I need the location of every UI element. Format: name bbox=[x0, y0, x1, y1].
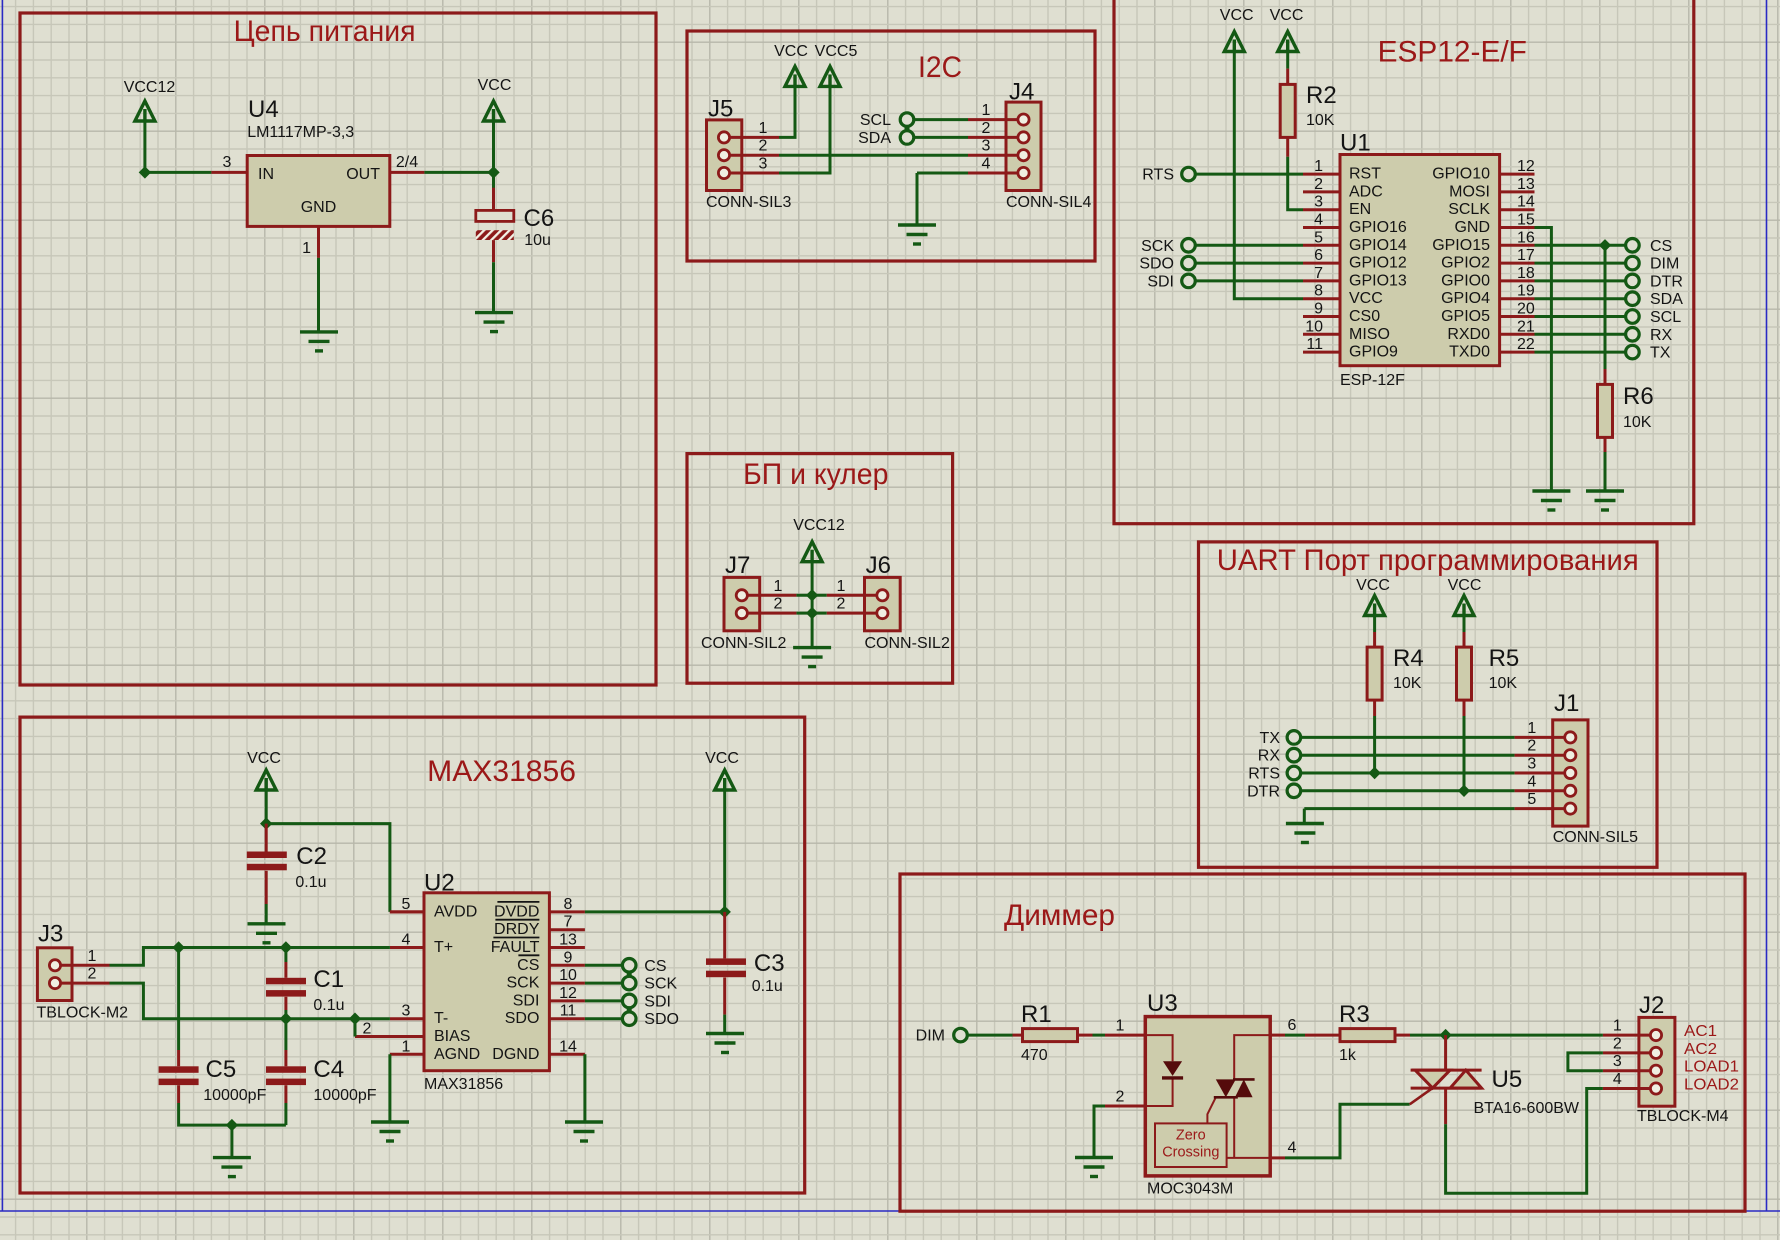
svg-text:ESP12-E/F: ESP12-E/F bbox=[1378, 36, 1527, 69]
svg-text:MOC3043M: MOC3043M bbox=[1147, 1181, 1233, 1198]
svg-text:J7: J7 bbox=[725, 552, 750, 579]
svg-text:SDI: SDI bbox=[1147, 273, 1174, 290]
svg-text:J5: J5 bbox=[708, 96, 733, 123]
svg-text:AVDD: AVDD bbox=[434, 903, 477, 920]
svg-text:3: 3 bbox=[1527, 756, 1536, 773]
svg-text:2: 2 bbox=[837, 596, 846, 613]
svg-text:1k: 1k bbox=[1339, 1047, 1357, 1064]
svg-text:C6: C6 bbox=[524, 205, 555, 232]
svg-text:SCL: SCL bbox=[860, 112, 891, 129]
svg-text:C5: C5 bbox=[206, 1056, 237, 1083]
svg-text:3: 3 bbox=[1314, 194, 1323, 211]
svg-text:AC1: AC1 bbox=[1684, 1023, 1717, 1040]
svg-text:DVDD: DVDD bbox=[494, 903, 539, 920]
svg-text:GND: GND bbox=[1454, 219, 1490, 236]
svg-text:CS: CS bbox=[1650, 238, 1672, 255]
svg-text:Crossing: Crossing bbox=[1162, 1145, 1219, 1161]
svg-text:VCC: VCC bbox=[774, 43, 808, 60]
svg-text:0.1u: 0.1u bbox=[752, 978, 783, 995]
svg-text:VCC12: VCC12 bbox=[124, 79, 176, 96]
svg-text:1: 1 bbox=[837, 578, 846, 595]
svg-text:19: 19 bbox=[1517, 283, 1535, 300]
svg-text:J3: J3 bbox=[38, 921, 63, 948]
svg-text:20: 20 bbox=[1517, 301, 1535, 318]
svg-text:IN: IN bbox=[258, 166, 274, 183]
svg-text:T-: T- bbox=[434, 1010, 448, 1027]
svg-text:Цепь питания: Цепь питания bbox=[234, 15, 416, 48]
svg-text:CONN-SIL2: CONN-SIL2 bbox=[701, 635, 786, 652]
svg-text:7: 7 bbox=[564, 914, 573, 931]
svg-text:9: 9 bbox=[564, 949, 573, 966]
svg-text:БП и кулер: БП и кулер bbox=[743, 458, 888, 491]
svg-text:13: 13 bbox=[559, 932, 577, 949]
svg-text:11: 11 bbox=[560, 1003, 577, 1020]
svg-text:CS: CS bbox=[517, 957, 539, 974]
svg-text:ADC: ADC bbox=[1349, 183, 1383, 200]
svg-text:VCC12: VCC12 bbox=[793, 517, 845, 534]
svg-text:2: 2 bbox=[88, 966, 97, 983]
svg-text:LOAD1: LOAD1 bbox=[1684, 1059, 1739, 1076]
svg-text:U5: U5 bbox=[1492, 1066, 1523, 1093]
svg-text:18: 18 bbox=[1517, 265, 1535, 282]
svg-text:DTR: DTR bbox=[1247, 783, 1280, 800]
svg-text:10K: 10K bbox=[1489, 675, 1518, 692]
svg-text:RST: RST bbox=[1349, 166, 1381, 183]
svg-text:RTS: RTS bbox=[1248, 766, 1280, 783]
svg-text:2: 2 bbox=[1116, 1089, 1125, 1106]
svg-text:SDO: SDO bbox=[644, 1011, 679, 1028]
svg-text:1: 1 bbox=[402, 1038, 411, 1055]
svg-text:GPIO15: GPIO15 bbox=[1432, 237, 1490, 254]
svg-text:10: 10 bbox=[1305, 318, 1323, 335]
svg-text:R2: R2 bbox=[1306, 82, 1337, 109]
svg-text:SDO: SDO bbox=[1139, 256, 1174, 273]
svg-text:LM1117MP-3,3: LM1117MP-3,3 bbox=[247, 124, 354, 141]
svg-text:J6: J6 bbox=[866, 552, 891, 579]
svg-text:GPIO4: GPIO4 bbox=[1441, 290, 1490, 307]
svg-text:4: 4 bbox=[1314, 212, 1323, 229]
svg-text:AGND: AGND bbox=[434, 1046, 480, 1063]
svg-text:SCLK: SCLK bbox=[1448, 201, 1490, 218]
svg-text:GPIO5: GPIO5 bbox=[1441, 308, 1490, 325]
svg-text:7: 7 bbox=[1314, 265, 1323, 282]
svg-text:TX: TX bbox=[1260, 730, 1281, 747]
svg-text:4: 4 bbox=[982, 156, 991, 173]
svg-text:DIM: DIM bbox=[916, 1028, 945, 1045]
svg-text:21: 21 bbox=[1517, 318, 1535, 335]
svg-text:R4: R4 bbox=[1393, 645, 1424, 672]
svg-text:6: 6 bbox=[1314, 247, 1323, 264]
svg-text:GPIO12: GPIO12 bbox=[1349, 255, 1407, 272]
svg-text:SDA: SDA bbox=[858, 130, 891, 147]
svg-text:1: 1 bbox=[1116, 1018, 1125, 1035]
svg-text:SCK: SCK bbox=[644, 976, 677, 993]
svg-text:UART Порт программирования: UART Порт программирования bbox=[1217, 544, 1639, 577]
svg-text:VCC: VCC bbox=[705, 750, 739, 767]
svg-text:RX: RX bbox=[1650, 327, 1673, 344]
svg-text:VCC: VCC bbox=[247, 750, 281, 767]
svg-text:0.1u: 0.1u bbox=[295, 874, 326, 891]
svg-text:10000pF: 10000pF bbox=[203, 1087, 266, 1104]
svg-text:GPIO9: GPIO9 bbox=[1349, 344, 1398, 361]
svg-text:CONN-SIL3: CONN-SIL3 bbox=[706, 194, 791, 211]
svg-text:2: 2 bbox=[982, 120, 991, 137]
svg-text:10K: 10K bbox=[1393, 675, 1422, 692]
svg-text:3: 3 bbox=[759, 156, 768, 173]
svg-text:DRDY: DRDY bbox=[494, 921, 540, 938]
svg-text:DGND: DGND bbox=[492, 1046, 539, 1063]
svg-text:SCK: SCK bbox=[506, 975, 539, 992]
svg-text:VCC: VCC bbox=[1349, 290, 1383, 307]
svg-text:4: 4 bbox=[402, 932, 411, 949]
svg-text:4: 4 bbox=[1613, 1071, 1622, 1088]
svg-text:C2: C2 bbox=[296, 843, 327, 870]
svg-text:J2: J2 bbox=[1639, 992, 1664, 1019]
svg-text:CS0: CS0 bbox=[1349, 308, 1380, 325]
svg-text:RX: RX bbox=[1258, 748, 1281, 765]
svg-text:1: 1 bbox=[759, 120, 768, 137]
svg-text:RXD0: RXD0 bbox=[1447, 326, 1490, 343]
svg-text:22: 22 bbox=[1517, 336, 1535, 353]
svg-text:U1: U1 bbox=[1340, 130, 1371, 157]
svg-text:5: 5 bbox=[1527, 791, 1536, 808]
svg-text:C3: C3 bbox=[754, 950, 785, 977]
svg-text:10: 10 bbox=[559, 967, 577, 984]
svg-text:GND: GND bbox=[301, 199, 337, 216]
svg-text:R5: R5 bbox=[1489, 645, 1520, 672]
svg-text:2: 2 bbox=[759, 138, 768, 155]
svg-text:GPIO14: GPIO14 bbox=[1349, 237, 1407, 254]
svg-text:10K: 10K bbox=[1623, 414, 1652, 431]
svg-text:SDI: SDI bbox=[644, 993, 671, 1010]
svg-text:AC2: AC2 bbox=[1684, 1041, 1717, 1058]
svg-text:U3: U3 bbox=[1147, 990, 1178, 1017]
svg-text:SDI: SDI bbox=[513, 992, 540, 1009]
svg-text:DTR: DTR bbox=[1650, 273, 1683, 290]
svg-text:GPIO16: GPIO16 bbox=[1349, 219, 1407, 236]
svg-text:MISO: MISO bbox=[1349, 326, 1390, 343]
svg-text:2: 2 bbox=[774, 596, 783, 613]
svg-text:1: 1 bbox=[88, 948, 97, 965]
svg-text:DIM: DIM bbox=[1650, 256, 1679, 273]
svg-text:VCC: VCC bbox=[1356, 577, 1390, 594]
svg-text:U2: U2 bbox=[424, 870, 455, 897]
svg-text:1: 1 bbox=[774, 578, 783, 595]
svg-text:Диммер: Диммер bbox=[1004, 899, 1115, 932]
svg-text:TBLOCK-M4: TBLOCK-M4 bbox=[1637, 1108, 1729, 1125]
svg-text:1: 1 bbox=[1527, 720, 1536, 737]
svg-text:10K: 10K bbox=[1306, 112, 1335, 129]
svg-text:15: 15 bbox=[1517, 212, 1535, 229]
svg-text:6: 6 bbox=[1288, 1017, 1297, 1034]
svg-text:J1: J1 bbox=[1554, 690, 1579, 717]
svg-text:SDA: SDA bbox=[1650, 291, 1683, 308]
svg-text:R3: R3 bbox=[1339, 1001, 1370, 1028]
svg-text:CONN-SIL5: CONN-SIL5 bbox=[1553, 829, 1638, 846]
svg-text:5: 5 bbox=[402, 896, 411, 913]
svg-text:MOSI: MOSI bbox=[1449, 183, 1490, 200]
svg-text:TBLOCK-M2: TBLOCK-M2 bbox=[37, 1005, 129, 1022]
svg-text:R1: R1 bbox=[1021, 1001, 1052, 1028]
svg-text:10u: 10u bbox=[524, 232, 551, 249]
svg-text:8: 8 bbox=[564, 896, 573, 913]
svg-text:FAULT: FAULT bbox=[491, 939, 540, 956]
svg-text:U4: U4 bbox=[248, 96, 279, 123]
svg-text:C1: C1 bbox=[313, 966, 344, 993]
svg-text:GPIO10: GPIO10 bbox=[1432, 166, 1490, 183]
svg-text:12: 12 bbox=[1517, 158, 1535, 175]
svg-text:BTA16-600BW: BTA16-600BW bbox=[1474, 1100, 1580, 1117]
svg-text:RTS: RTS bbox=[1142, 167, 1174, 184]
svg-text:ESP-12F: ESP-12F bbox=[1340, 372, 1405, 389]
svg-text:12: 12 bbox=[559, 985, 577, 1002]
svg-text:I2C: I2C bbox=[918, 51, 962, 84]
svg-text:10000pF: 10000pF bbox=[313, 1087, 376, 1104]
svg-text:OUT: OUT bbox=[346, 166, 380, 183]
svg-text:T+: T+ bbox=[434, 939, 453, 956]
svg-text:11: 11 bbox=[1306, 336, 1323, 353]
svg-text:1: 1 bbox=[1613, 1018, 1622, 1035]
svg-text:VCC: VCC bbox=[1270, 7, 1304, 24]
svg-text:R6: R6 bbox=[1623, 383, 1654, 410]
svg-text:2: 2 bbox=[1527, 738, 1536, 755]
svg-text:VCC5: VCC5 bbox=[815, 43, 858, 60]
svg-text:1: 1 bbox=[982, 102, 991, 119]
svg-text:SCK: SCK bbox=[1141, 238, 1174, 255]
svg-text:2: 2 bbox=[1314, 176, 1323, 193]
svg-text:CONN-SIL2: CONN-SIL2 bbox=[865, 635, 950, 652]
svg-text:8: 8 bbox=[1314, 283, 1323, 300]
svg-text:EN: EN bbox=[1349, 201, 1371, 218]
svg-text:VCC: VCC bbox=[1220, 7, 1254, 24]
svg-text:16: 16 bbox=[1517, 229, 1535, 246]
svg-text:3: 3 bbox=[1613, 1053, 1622, 1070]
svg-text:14: 14 bbox=[559, 1038, 577, 1055]
svg-text:4: 4 bbox=[1527, 773, 1536, 790]
svg-text:470: 470 bbox=[1021, 1047, 1048, 1064]
svg-text:BIAS: BIAS bbox=[434, 1028, 470, 1045]
svg-text:LOAD2: LOAD2 bbox=[1684, 1077, 1739, 1094]
svg-text:TX: TX bbox=[1650, 345, 1671, 362]
svg-text:14: 14 bbox=[1517, 194, 1535, 211]
svg-text:C4: C4 bbox=[313, 1056, 344, 1083]
svg-text:3: 3 bbox=[223, 154, 232, 171]
svg-text:CONN-SIL4: CONN-SIL4 bbox=[1006, 194, 1091, 211]
svg-text:Zero: Zero bbox=[1176, 1128, 1206, 1144]
svg-text:MAX31856: MAX31856 bbox=[424, 1076, 503, 1093]
svg-text:2/4: 2/4 bbox=[396, 154, 418, 171]
svg-text:13: 13 bbox=[1517, 176, 1535, 193]
svg-text:GPIO0: GPIO0 bbox=[1441, 272, 1490, 289]
svg-text:3: 3 bbox=[402, 1003, 411, 1020]
svg-text:VCC: VCC bbox=[478, 77, 512, 94]
svg-text:17: 17 bbox=[1517, 247, 1535, 264]
svg-text:SDO: SDO bbox=[505, 1010, 540, 1027]
svg-text:TXD0: TXD0 bbox=[1449, 344, 1490, 361]
svg-text:0.1u: 0.1u bbox=[313, 997, 344, 1014]
svg-text:3: 3 bbox=[982, 138, 991, 155]
svg-text:2: 2 bbox=[363, 1021, 372, 1038]
svg-text:5: 5 bbox=[1314, 229, 1323, 246]
svg-text:GPIO2: GPIO2 bbox=[1441, 255, 1490, 272]
svg-text:2: 2 bbox=[1613, 1035, 1622, 1052]
svg-text:9: 9 bbox=[1314, 301, 1323, 318]
svg-text:1: 1 bbox=[1314, 158, 1323, 175]
svg-text:CS: CS bbox=[644, 958, 666, 975]
svg-text:4: 4 bbox=[1288, 1140, 1297, 1157]
svg-text:VCC: VCC bbox=[1448, 577, 1482, 594]
svg-text:J4: J4 bbox=[1009, 79, 1034, 106]
svg-text:SCL: SCL bbox=[1650, 309, 1681, 326]
svg-text:GPIO13: GPIO13 bbox=[1349, 272, 1407, 289]
svg-text:MAX31856: MAX31856 bbox=[427, 755, 576, 788]
svg-text:1: 1 bbox=[302, 240, 311, 257]
